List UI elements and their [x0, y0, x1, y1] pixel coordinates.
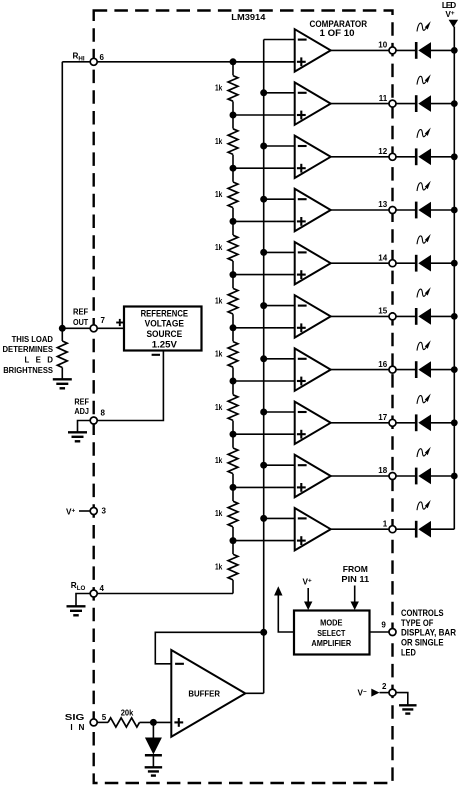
svg-text:REF: REF [74, 397, 89, 406]
svg-text:SOURCE: SOURCE [146, 329, 182, 339]
node resistor chain top tap [230, 58, 237, 65]
op-amp comparator C3 [295, 136, 331, 178]
IC boundary dashed box [94, 11, 393, 784]
wire comparator C9 output to pin 18 [331, 475, 389, 477]
label LED V+ [442, 1, 456, 19]
wire comparator C1 output to pin 10 [331, 49, 389, 51]
svg-text:5: 5 [102, 713, 107, 722]
LED D3 light arrow [417, 128, 431, 138]
LED D7 [396, 361, 458, 378]
svg-text:REF: REF [73, 308, 88, 317]
svg-text:1k: 1k [215, 509, 223, 518]
svg-text:LM3914: LM3914 [231, 13, 266, 22]
LED D9 [396, 468, 458, 485]
reference voltage source box [116, 307, 201, 355]
ground at pin 2 [399, 705, 416, 713]
op-amp buffer [171, 650, 245, 737]
pin 8 REF ADJ [74, 397, 105, 431]
svg-text:DETERMINES: DETERMINES [3, 345, 54, 354]
wire signal bus to comparator C3 minus input [260, 143, 295, 150]
svg-text:PIN 11: PIN 11 [341, 575, 369, 584]
label COMPARATOR 1 OF 10 [310, 19, 368, 38]
op-amp comparator C6 [295, 295, 331, 337]
pin 12 [378, 147, 396, 160]
svg-text:1k: 1k [215, 84, 223, 93]
svg-text:17: 17 [378, 413, 387, 422]
svg-text:20k: 20k [121, 708, 134, 717]
svg-text:LED: LED [401, 647, 416, 658]
wire mode select brightness-control arrow [274, 586, 294, 632]
LED D4 light arrow [417, 181, 431, 191]
svg-text:7: 7 [101, 316, 106, 325]
svg-text:1k: 1k [215, 296, 223, 305]
svg-text:SELECT: SELECT [317, 629, 345, 638]
wire signal bus to comparator C4 minus input [260, 196, 295, 203]
ground under load resistor [53, 379, 72, 388]
svg-text:THIS LOAD: THIS LOAD [12, 335, 54, 344]
wire buffer-output signal bus (vertical) [263, 40, 265, 694]
svg-text:LED: LED [442, 1, 456, 10]
wire tap to comparator C5 plus input [230, 271, 295, 278]
LED V+ supply rail [449, 20, 459, 529]
FROM PIN 11 arrow to mode select [341, 565, 369, 610]
wire buffer output to signal bus [245, 692, 263, 694]
wire tap to comparator C4 plus input [230, 218, 295, 225]
LED D5 [396, 255, 458, 272]
svg-text:2: 2 [382, 682, 387, 691]
LED D1 [396, 42, 458, 59]
node buffer plus input junction [150, 719, 157, 726]
wire comparator C6 output to pin 15 [331, 315, 389, 317]
svg-text:4: 4 [100, 584, 105, 593]
pin 7 REF OUT [59, 308, 124, 332]
wire comparator C3 output to pin 12 [331, 156, 389, 158]
svg-text:LED: LED [25, 356, 54, 365]
resistor R3 1k [215, 182, 239, 208]
op-amp comparator C8 [295, 402, 331, 444]
op-amp comparator C5 [295, 242, 331, 284]
svg-text:VOLTAGE: VOLTAGE [145, 319, 184, 329]
pin 5 SIG IN [65, 713, 108, 732]
clamp diode [145, 722, 162, 766]
resistor R4 1k [215, 235, 239, 261]
pin 13 [378, 200, 396, 213]
LED D6 light arrow [417, 287, 431, 297]
svg-text:1k: 1k [215, 243, 223, 252]
wire tap to comparator C9 plus input [230, 484, 295, 491]
op-amp comparator C7 [295, 348, 331, 390]
svg-text:1k: 1k [215, 403, 223, 412]
op-amp comparator C10 [295, 508, 331, 550]
svg-text:3: 3 [102, 506, 107, 515]
svg-text:1 OF 10: 1 OF 10 [320, 28, 355, 38]
LED D10 light arrow [417, 500, 431, 510]
svg-text:REFERENCE: REFERENCE [141, 309, 188, 319]
wire left rail RHI to REF OUT [61, 62, 63, 329]
pin 3 V+ [66, 506, 107, 516]
LED D3 [396, 148, 458, 165]
svg-text:18: 18 [378, 466, 387, 475]
svg-text:15: 15 [378, 307, 387, 316]
pin 1 [383, 519, 396, 532]
resistor R7 1k [215, 395, 239, 421]
pin 18 [378, 466, 396, 479]
svg-text:10: 10 [378, 41, 387, 50]
label LM3914 [231, 13, 266, 22]
svg-text:FROM: FROM [343, 565, 368, 574]
svg-text:1: 1 [383, 519, 388, 528]
LED D10 [396, 521, 454, 538]
LED D2 light arrow [417, 74, 431, 84]
svg-text:13: 13 [378, 200, 387, 209]
V+ input arrow to mode select [303, 577, 313, 610]
label THIS LOAD DETERMINES LED BRIGHTNESS [3, 335, 54, 375]
pin 2 V- [358, 682, 408, 704]
ground at RLO [67, 606, 86, 615]
svg-text:11: 11 [379, 94, 388, 103]
svg-text:1k: 1k [215, 350, 223, 359]
LED D6 [396, 308, 458, 325]
svg-text:MODE: MODE [320, 618, 343, 627]
wire signal bus to comparator C5 minus input [260, 249, 295, 256]
svg-text:8: 8 [101, 409, 106, 418]
pin 10 [378, 41, 396, 54]
wire comparator C1 minus jog [264, 39, 295, 41]
svg-text:9: 9 [381, 621, 386, 630]
wire tap to comparator C1 plus input [233, 61, 295, 63]
LED D9 light arrow [417, 447, 431, 457]
LED D4 [396, 202, 458, 219]
LED D5 light arrow [417, 234, 431, 244]
pin 16 [378, 360, 396, 373]
svg-text:1k: 1k [215, 456, 223, 465]
resistor R8 1k [215, 448, 239, 474]
LED D1 light arrow [417, 21, 431, 31]
wire signal bus to comparator C10 minus input [260, 515, 295, 522]
wire signal bus to comparator C8 minus input [260, 409, 295, 416]
svg-text:OUT: OUT [73, 318, 88, 327]
wire resistor-chain spine [232, 62, 234, 594]
svg-text:6: 6 [100, 53, 105, 62]
wire buffer feedback [155, 629, 267, 664]
wire comparator C5 output to pin 14 [331, 262, 389, 264]
svg-text:BRIGHTNESS: BRIGHTNESS [3, 366, 53, 375]
wire signal bus to comparator C6 minus input [260, 302, 295, 309]
wire comparator C8 output to pin 17 [331, 422, 389, 424]
wire tap to comparator C3 plus input [230, 165, 295, 172]
wire signal bus to comparator C7 minus input [260, 355, 295, 362]
wire comparator C2 output to pin 11 [331, 103, 389, 105]
resistor R6 1k [215, 341, 239, 367]
pin 4 RLO [71, 581, 105, 605]
label CONTROLS TYPE OF DISPLAY BAR OR SINGLE LED [401, 607, 456, 658]
op-amp comparator C9 [295, 455, 331, 497]
ground under diode [145, 767, 162, 775]
resistor R10 1k [215, 554, 239, 580]
resistor R9 1k [215, 501, 239, 527]
op-amp comparator C4 [295, 189, 331, 231]
wire signal bus to comparator C2 minus input [260, 89, 295, 96]
resistor R5 1k [215, 288, 239, 314]
wire signal bus to comparator C9 minus input [260, 462, 295, 469]
wire REF box minus to pin 8 [97, 351, 163, 421]
pin 17 [378, 413, 396, 426]
wire comparator C4 output to pin 13 [331, 209, 389, 211]
wire tap to comparator C2 plus input [230, 112, 295, 119]
load resistor [57, 328, 67, 378]
resistor R2 1k [215, 129, 239, 155]
pin 11 [379, 94, 396, 107]
pin 9 mode select output [370, 621, 397, 636]
svg-text:1k: 1k [215, 562, 223, 571]
pin 15 [378, 307, 396, 320]
wire comparator C7 output to pin 16 [331, 369, 389, 371]
svg-text:1.25V: 1.25V [152, 339, 177, 349]
wire tap to comparator C8 plus input [230, 431, 295, 438]
wire tap to comparator C7 plus input [230, 378, 295, 385]
pin 6 RHI [62, 52, 294, 66]
pin 14 [378, 253, 396, 266]
svg-text:14: 14 [378, 253, 387, 262]
svg-text:SIG: SIG [65, 713, 85, 722]
svg-text:12: 12 [378, 147, 387, 156]
svg-text:ADJ: ADJ [74, 407, 89, 416]
svg-text:16: 16 [378, 360, 387, 369]
resistor R1 1k [215, 75, 239, 101]
wire comparator C10 output to pin 1 [331, 528, 389, 530]
op-amp comparator C1 [295, 29, 331, 71]
mode select amplifier box [294, 611, 370, 655]
resistor 20k [108, 708, 171, 727]
LED D8 light arrow [417, 394, 431, 404]
wire tap to comparator C6 plus input [230, 324, 295, 331]
svg-text:AMPLIFIER: AMPLIFIER [311, 639, 351, 648]
wire pin 4 to resistor chain bottom [97, 593, 233, 595]
svg-text:1k: 1k [215, 190, 223, 199]
LED D8 [396, 414, 458, 431]
svg-text:BUFFER: BUFFER [188, 689, 220, 698]
LED D7 light arrow [417, 340, 431, 350]
wire tap to comparator C10 plus input [230, 537, 295, 544]
op-amp comparator C2 [295, 82, 331, 124]
ground at REF ADJ [68, 432, 87, 441]
LED D2 [396, 95, 458, 112]
svg-text:1k: 1k [215, 137, 223, 146]
